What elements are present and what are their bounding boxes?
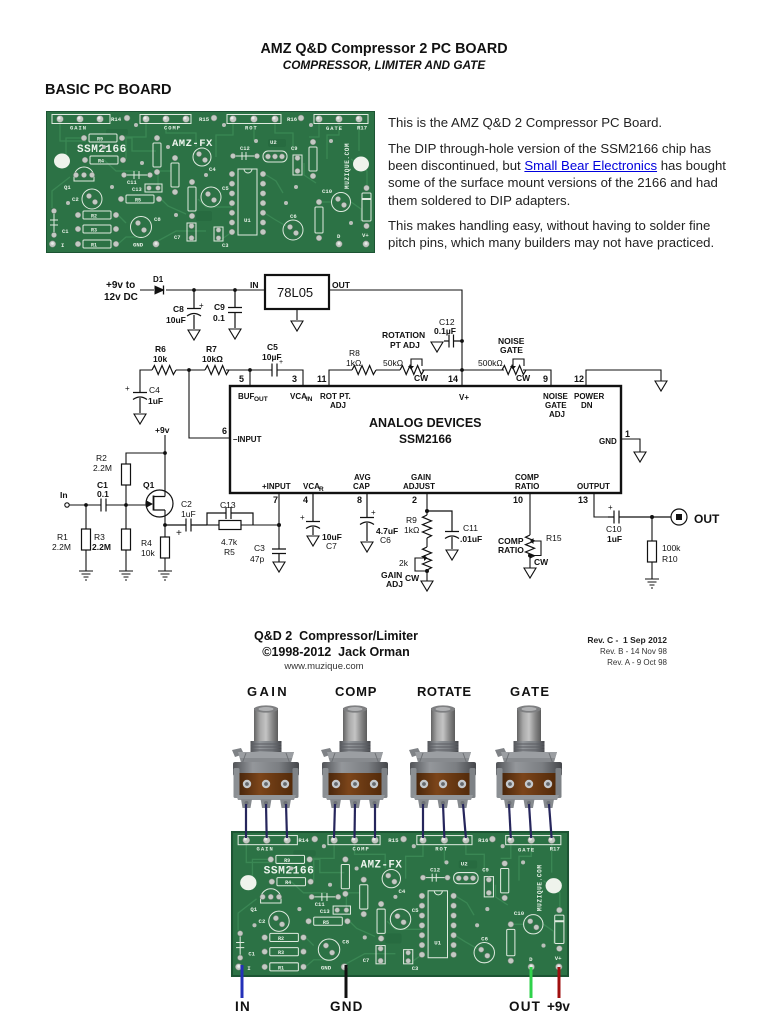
- svg-text:10: 10: [513, 495, 523, 505]
- svg-text:NOISE: NOISE: [543, 392, 569, 401]
- wire +9v red: [558, 967, 561, 998]
- svg-text:IN: IN: [306, 396, 313, 403]
- potentiometer 50k rotation: [383, 358, 429, 383]
- svg-text:DN: DN: [581, 401, 593, 410]
- svg-text:CAP: CAP: [353, 482, 371, 491]
- resistor R8: [346, 348, 376, 375]
- pot leads COMP: [334, 804, 335, 838]
- svg-text:+9v to: +9v to: [106, 280, 135, 291]
- wire pin7: [278, 493, 280, 549]
- svg-text:ADJ: ADJ: [386, 579, 403, 589]
- svg-text:OUTPUT: OUTPUT: [577, 482, 610, 491]
- svg-text:R15: R15: [546, 533, 562, 543]
- svg-text:OUT: OUT: [254, 396, 268, 403]
- junction node C8: [192, 288, 196, 292]
- resistor R10: [648, 517, 682, 579]
- svg-text:12v DC: 12v DC: [104, 292, 138, 303]
- svg-text:2.2M: 2.2M: [52, 542, 71, 552]
- wire power rail: [140, 289, 265, 291]
- svg-text:VCA: VCA: [290, 392, 307, 401]
- resistor R9: [404, 515, 432, 547]
- regulator 78L05: [265, 275, 329, 320]
- wire pin12 to ground: [586, 370, 661, 386]
- junction node R1: [84, 503, 88, 507]
- svg-text:78L05: 78L05: [277, 285, 313, 300]
- svg-text:R9: R9: [406, 515, 417, 525]
- svg-text:10k: 10k: [153, 354, 167, 364]
- junction node pin2: [425, 509, 429, 513]
- resistor R6: [152, 344, 176, 375]
- svg-text:14: 14: [448, 374, 458, 384]
- capacitor C2: [165, 499, 207, 539]
- svg-text:SSM2166: SSM2166: [399, 432, 452, 446]
- junction node R3: [124, 503, 128, 507]
- svg-text:V+: V+: [459, 393, 469, 402]
- junction node pin7: [277, 523, 281, 527]
- capacitor C8: [166, 290, 204, 329]
- svg-text:C4: C4: [149, 385, 160, 395]
- resistor R3: [92, 505, 131, 571]
- resistor R2: [93, 453, 165, 505]
- wire 78L05 out to V+ pin14: [329, 290, 462, 386]
- wire pin2: [426, 493, 428, 515]
- ground pin1: [634, 452, 646, 462]
- svg-text:2: 2: [412, 495, 417, 505]
- svg-text:C9: C9: [214, 302, 225, 312]
- svg-text:+: +: [300, 513, 305, 522]
- svg-text:C7: C7: [326, 541, 337, 551]
- svg-text:6: 6: [222, 426, 227, 436]
- svg-text:1kΩ: 1kΩ: [346, 358, 361, 368]
- pot leads GAIN: [246, 804, 552, 838]
- ground C7: [307, 536, 319, 546]
- wire pin11 to pot rail: [329, 370, 551, 386]
- svg-text:RATIO: RATIO: [498, 545, 524, 555]
- svg-text:Q1: Q1: [143, 480, 155, 490]
- svg-text:C2: C2: [181, 499, 192, 509]
- svg-text:GAIN: GAIN: [411, 473, 431, 482]
- ground C3: [273, 562, 285, 572]
- ground 2k pot: [421, 581, 433, 591]
- svg-text:8: 8: [357, 495, 362, 505]
- svg-text:R8: R8: [349, 348, 360, 358]
- capacitor C12: [434, 317, 464, 348]
- svg-text:2.2M: 2.2M: [93, 463, 112, 473]
- capacitor C3: [250, 543, 286, 564]
- junction node C9: [233, 288, 237, 292]
- output jack: [671, 509, 720, 526]
- svg-text:C6: C6: [380, 535, 391, 545]
- junction node source: [163, 523, 167, 527]
- svg-text:R4: R4: [141, 538, 152, 548]
- svg-text:1uF: 1uF: [148, 396, 163, 406]
- ground C6: [361, 542, 373, 552]
- transistor Q1 JFET: [143, 453, 173, 525]
- svg-text:50kΩ: 50kΩ: [383, 358, 403, 368]
- svg-text:ADJ: ADJ: [549, 410, 565, 419]
- wire OUT green: [530, 967, 533, 998]
- svg-text:+: +: [608, 503, 613, 512]
- svg-text:3: 3: [292, 374, 297, 384]
- svg-text:C3: C3: [254, 543, 265, 553]
- wire feedback pin6: [189, 370, 230, 438]
- capacitor C5: [262, 342, 283, 377]
- ground C9: [229, 329, 241, 339]
- svg-text:100k: 100k: [662, 543, 681, 553]
- junction node R6/R7: [187, 368, 191, 372]
- ground C8: [188, 330, 200, 340]
- svg-text:OUT: OUT: [332, 280, 351, 290]
- svg-text:AVG: AVG: [354, 473, 371, 482]
- svg-text:10k: 10k: [141, 548, 155, 558]
- svg-text:12: 12: [574, 374, 584, 384]
- svg-text:13: 13: [578, 495, 588, 505]
- junction node pin5: [248, 368, 252, 372]
- ground R15: [524, 568, 536, 578]
- svg-text:1uF: 1uF: [181, 509, 196, 519]
- wire gain rail: [140, 370, 303, 390]
- wire input: [69, 504, 146, 506]
- diode D1: [153, 275, 164, 295]
- svg-text:IN: IN: [250, 280, 259, 290]
- ground R1: [79, 571, 93, 580]
- svg-text:0.1: 0.1: [213, 313, 225, 323]
- svg-text:+: +: [199, 301, 204, 310]
- svg-text:5: 5: [239, 374, 244, 384]
- svg-text:+: +: [125, 384, 130, 393]
- svg-text:OUT: OUT: [694, 512, 720, 526]
- ground R4: [158, 571, 172, 580]
- svg-text:1: 1: [625, 429, 630, 439]
- capacitor C9: [213, 290, 242, 328]
- svg-text:R1: R1: [57, 532, 68, 542]
- svg-text:+9v: +9v: [155, 425, 170, 435]
- svg-text:7: 7: [273, 495, 278, 505]
- potentiometer 500k noise gate: [478, 358, 531, 383]
- svg-text:47p: 47p: [250, 554, 264, 564]
- ground C12: [431, 342, 443, 352]
- svg-text:C8: C8: [173, 304, 184, 314]
- svg-text:10µF: 10µF: [262, 352, 282, 362]
- svg-text:R: R: [319, 486, 324, 493]
- svg-text:R2: R2: [96, 453, 107, 463]
- ground R3: [119, 571, 133, 580]
- resistor R7: [202, 344, 229, 375]
- svg-text:2k: 2k: [399, 558, 409, 568]
- junction node output: [650, 515, 654, 519]
- svg-text:C13: C13: [220, 500, 236, 510]
- svg-text:1kΩ: 1kΩ: [404, 525, 419, 535]
- svg-text:R3: R3: [94, 532, 105, 542]
- ground C4: [134, 414, 146, 424]
- potentiometer 2k gain adj: [399, 547, 432, 583]
- capacitor C4: [125, 384, 163, 413]
- svg-text:10kΩ: 10kΩ: [202, 354, 223, 364]
- svg-text:R10: R10: [662, 554, 678, 564]
- svg-text:4: 4: [303, 495, 308, 505]
- pot leads GATE: [509, 804, 511, 838]
- wire pin5 stub: [249, 370, 251, 386]
- svg-text:POWER: POWER: [574, 392, 604, 401]
- svg-text:R5: R5: [224, 547, 235, 557]
- svg-text:.01uF: .01uF: [460, 534, 482, 544]
- svg-text:4.7k: 4.7k: [221, 537, 238, 547]
- resistor R4: [141, 525, 170, 571]
- svg-text:11: 11: [317, 374, 327, 384]
- svg-text:C11: C11: [463, 523, 478, 533]
- resistor R1: [52, 505, 91, 571]
- svg-text:VCA: VCA: [303, 482, 320, 491]
- svg-text:9: 9: [543, 374, 548, 384]
- svg-text:C5: C5: [267, 342, 278, 352]
- potentiometer GAIN: [232, 705, 299, 808]
- svg-text:500kΩ: 500kΩ: [478, 358, 503, 368]
- svg-text:ANALOG DEVICES: ANALOG DEVICES: [369, 416, 482, 430]
- svg-text:ROTATION: ROTATION: [382, 330, 425, 340]
- svg-text:CW: CW: [534, 557, 549, 567]
- capacitor C11: [427, 511, 482, 549]
- svg-text:0.1: 0.1: [97, 489, 109, 499]
- svg-text:0.1µF: 0.1µF: [434, 326, 456, 336]
- svg-text:ADJ: ADJ: [330, 401, 346, 410]
- svg-text:COMP: COMP: [515, 473, 540, 482]
- svg-text:+INPUT: +INPUT: [262, 482, 291, 491]
- junction node V+: [460, 368, 464, 372]
- capacitor C13: [207, 500, 253, 525]
- ground pin12: [655, 381, 667, 391]
- svg-text:GND: GND: [599, 437, 617, 446]
- resistor R5: [207, 521, 279, 558]
- svg-text:–INPUT: –INPUT: [233, 435, 262, 444]
- ground 78L05: [291, 321, 303, 331]
- wire pin1 GND: [621, 439, 640, 452]
- svg-text:CW: CW: [414, 373, 429, 383]
- ground C11: [446, 550, 458, 560]
- capacitor C10: [606, 503, 671, 544]
- capacitor C7: [300, 493, 342, 551]
- svg-text:CW: CW: [405, 573, 420, 583]
- svg-text:1uF: 1uF: [607, 534, 622, 544]
- svg-text:D1: D1: [153, 275, 164, 284]
- potentiometer ROTATE: [409, 705, 476, 808]
- capacitor C1: [97, 480, 109, 512]
- potentiometer R15 comp ratio: [498, 493, 562, 568]
- svg-text:C10: C10: [606, 524, 622, 534]
- svg-text:GATE: GATE: [545, 401, 567, 410]
- PCB photo 2: [232, 832, 568, 976]
- svg-text:PT ADJ: PT ADJ: [390, 340, 420, 350]
- svg-text:ROT PT.: ROT PT.: [320, 392, 351, 401]
- svg-text:CW: CW: [516, 373, 531, 383]
- ground R10: [645, 579, 659, 588]
- svg-text:R6: R6: [155, 344, 166, 354]
- potentiometer COMP: [321, 705, 388, 808]
- svg-text:R7: R7: [206, 344, 217, 354]
- capacitor C6: [360, 493, 398, 545]
- svg-text:+: +: [371, 508, 376, 517]
- wire GND black: [345, 965, 348, 998]
- pot leads ROTATE: [422, 804, 424, 838]
- node +9v supply: [155, 425, 170, 455]
- svg-text:ADJUST: ADJUST: [403, 482, 435, 491]
- IC U1 SSM2166: [222, 374, 630, 505]
- svg-text:+: +: [176, 528, 182, 539]
- node In terminal: [60, 490, 69, 507]
- svg-text:RATIO: RATIO: [515, 482, 539, 491]
- wire pin13: [594, 493, 608, 517]
- wire IN blue: [241, 965, 244, 998]
- svg-text:2.2M: 2.2M: [92, 542, 111, 552]
- svg-text:In: In: [60, 490, 68, 500]
- svg-text:BUF: BUF: [238, 392, 255, 401]
- svg-text:GATE: GATE: [500, 345, 523, 355]
- potentiometer GATE: [495, 705, 562, 808]
- svg-text:10uF: 10uF: [166, 315, 186, 325]
